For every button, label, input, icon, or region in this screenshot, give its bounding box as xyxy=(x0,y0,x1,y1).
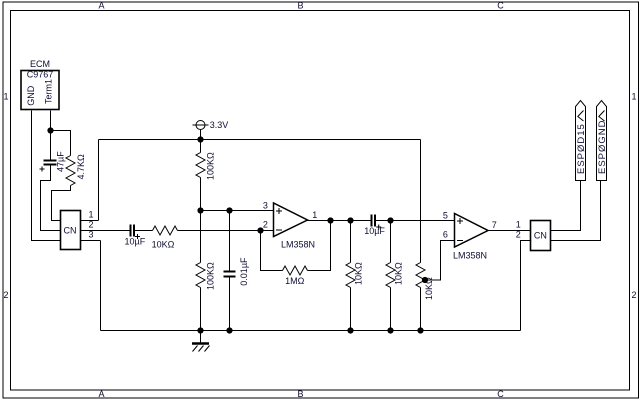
node Term1 junction xyxy=(47,127,53,133)
resistor 10KΩ input xyxy=(153,226,178,235)
wire capacitor 47µF bottom to CN pin2 row xyxy=(41,166,61,231)
svg-text:3: 3 xyxy=(88,230,93,240)
svg-text:2: 2 xyxy=(263,220,268,230)
wire 1M to output xyxy=(308,221,331,271)
wire tapped resistor bottom to ground bus xyxy=(420,288,422,331)
svg-text:GND: GND xyxy=(26,85,36,106)
resistor 10KΩ (bias) xyxy=(386,263,395,288)
junction 0.01µF tap xyxy=(226,207,232,213)
svg-text:1: 1 xyxy=(312,210,317,220)
svg-text:2: 2 xyxy=(88,220,93,230)
svg-text:47µF: 47µF xyxy=(56,151,66,172)
svg-text:1: 1 xyxy=(88,210,93,220)
10µF input plus mark xyxy=(135,234,140,239)
svg-text:B: B xyxy=(297,389,303,399)
node op1 +input bias xyxy=(197,207,203,213)
svg-text:10KΩ: 10KΩ xyxy=(354,262,364,285)
CN left pin 2 xyxy=(81,230,130,232)
wire tap to op2 pin6 xyxy=(425,241,455,281)
ground bus wire xyxy=(101,330,521,332)
wire capacitor to resistor 10K input xyxy=(135,230,153,232)
svg-text:7: 7 xyxy=(492,220,497,230)
connector CN left xyxy=(61,211,81,250)
svg-text:10µF: 10µF xyxy=(125,236,146,246)
capacitor 0.01µF plates xyxy=(224,271,236,278)
svg-text:100KΩ: 100KΩ xyxy=(206,152,216,180)
wire CN right to flag ESP0GND xyxy=(551,181,601,241)
svg-text:6: 6 xyxy=(443,229,448,239)
wire capacitor 0.01µF to ground bus xyxy=(229,278,231,331)
svg-text:A: A xyxy=(98,389,104,399)
ground symbol xyxy=(200,331,202,344)
CN left pin 3 xyxy=(81,240,101,242)
wire 10K load to ground bus xyxy=(350,288,352,331)
resistor 10KΩ at x350 wires xyxy=(350,221,352,263)
svg-text:0.01µF: 0.01µF xyxy=(239,257,249,286)
svg-text:2: 2 xyxy=(3,290,8,300)
net flag ESP0GND xyxy=(597,101,607,181)
10µF interstage plus mark xyxy=(376,225,381,230)
svg-text:B: B xyxy=(297,1,303,11)
svg-text:1: 1 xyxy=(516,219,521,229)
svg-text:C: C xyxy=(497,389,504,399)
resistor 4.7KΩ xyxy=(66,156,75,186)
capacitor 10µF interstage plates xyxy=(371,215,377,227)
wire resistor 100K upper to +input node xyxy=(200,178,202,211)
svg-text:2: 2 xyxy=(631,290,636,300)
wire 100K lower top xyxy=(200,211,202,263)
svg-text:10µF: 10µF xyxy=(364,226,385,236)
op-amp U1 LM358N xyxy=(274,203,308,237)
svg-text:10KΩ: 10KΩ xyxy=(394,262,404,285)
wire feedback down and to 1M xyxy=(261,231,283,271)
svg-text:ECM: ECM xyxy=(30,59,50,69)
wire +input node to op-amp pin3 xyxy=(201,210,274,212)
wire CN pin3 down to ground bus xyxy=(100,241,102,331)
resistor 100KΩ upper xyxy=(196,153,205,178)
svg-text:CN: CN xyxy=(534,230,547,240)
wire op2 output to CN right pin1 xyxy=(488,230,531,232)
wire CN right to flag ESP0D15 xyxy=(551,181,581,231)
svg-text:3: 3 xyxy=(263,200,268,210)
wire resistor 4.7K bottom to CN pin1 row xyxy=(52,186,71,221)
microphone ECM C9767 xyxy=(21,71,59,110)
wire tap down to capacitor 0.01µF xyxy=(229,211,231,271)
wire ECM GND to CN pin3 row xyxy=(32,111,61,241)
resistor 10KΩ at x390 wires xyxy=(390,221,392,263)
resistor 10KΩ (stage1 load) xyxy=(346,263,355,288)
CN left pin 1 xyxy=(81,220,99,222)
svg-text:1: 1 xyxy=(3,92,8,102)
svg-text:1MΩ: 1MΩ xyxy=(285,276,305,286)
svg-text:LM358N: LM358N xyxy=(281,240,315,250)
svg-text:A: A xyxy=(98,1,104,11)
capacitor 10µF input electrolytic plates xyxy=(130,225,136,237)
svg-text:5: 5 xyxy=(443,210,448,220)
junction resistor tap xyxy=(422,277,428,283)
wire op1 output to op2 input xyxy=(308,220,455,222)
junction 3.3V bus / divider xyxy=(197,136,203,142)
wire CN right pin2 to ground bus xyxy=(521,241,531,331)
power 3.3V symbol xyxy=(196,121,205,130)
svg-text:100KΩ: 100KΩ xyxy=(206,262,216,290)
resistor 1MΩ feedback xyxy=(283,266,308,275)
47µF plus mark xyxy=(40,167,45,172)
svg-text:LM358N: LM358N xyxy=(453,251,487,261)
svg-text:ESPØD15: ESPØD15 xyxy=(576,123,587,174)
junction output/feedback xyxy=(327,217,333,223)
svg-text:10KΩ: 10KΩ xyxy=(152,239,175,249)
wire resistor 10K to op-amp pin2 xyxy=(178,230,274,232)
wire node to resistor 4.7K top xyxy=(51,131,71,156)
connector CN right xyxy=(531,221,551,251)
junction feedback tap xyxy=(257,227,263,233)
svg-text:2: 2 xyxy=(516,229,521,239)
wire bus to resistor 100K upper xyxy=(200,140,202,153)
wire CN pin1 up to 3.3V bus xyxy=(98,140,100,221)
svg-text:Term1: Term1 xyxy=(44,79,54,104)
op-amp U2 LM358N xyxy=(455,214,489,248)
svg-text:CN: CN xyxy=(64,226,77,236)
svg-text:ESPØGND: ESPØGND xyxy=(597,119,608,174)
capacitor 47µF electrolytic plates xyxy=(44,160,57,166)
wire resistor 100K lower to ground bus xyxy=(200,288,202,331)
resistor 10KΩ tapped xyxy=(416,263,425,288)
wire 3.3V bus corner down to tapped resistor xyxy=(420,140,422,263)
net flag ESP0D15 xyxy=(576,101,586,181)
svg-text:1: 1 xyxy=(631,92,636,102)
wire 10K bias to ground bus xyxy=(390,288,392,331)
junction after cap bias tap xyxy=(387,217,393,223)
wire node to capacitor 47µF top xyxy=(50,131,52,160)
resistor 100KΩ lower xyxy=(196,263,205,288)
junction ground bus taps xyxy=(197,327,203,333)
svg-text:C: C xyxy=(497,1,504,11)
3.3V bus wire xyxy=(99,139,421,141)
svg-text:C9767: C9767 xyxy=(27,70,54,80)
junction 10K load tap xyxy=(347,217,353,223)
svg-text:3.3V: 3.3V xyxy=(210,120,229,130)
svg-text:4.7KΩ: 4.7KΩ xyxy=(76,154,86,180)
wire ECM Term1 to node xyxy=(50,111,52,131)
